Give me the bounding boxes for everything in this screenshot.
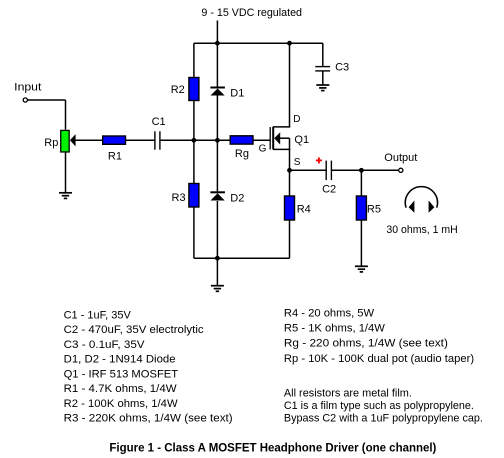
svg-text:R5 - 1K ohms, 1/4W: R5 - 1K ohms, 1/4W	[284, 323, 386, 335]
svg-text:R4: R4	[297, 204, 311, 216]
svg-text:Q1 - IRF 513 MOSFET: Q1 - IRF 513 MOSFET	[64, 368, 179, 380]
svg-text:R3 - 220K ohms, 1/4W (see t: R3 - 220K ohms, 1/4W (see text)	[64, 413, 233, 425]
svg-text:R2 - 100K ohms, 1/4W: R2 - 100K ohms, 1/4W	[64, 398, 179, 410]
svg-text:R3: R3	[172, 192, 186, 204]
svg-text:Input: Input	[14, 82, 41, 94]
svg-text:C1 - 1uF, 35V: C1 - 1uF, 35V	[64, 310, 132, 322]
svg-text:R1: R1	[108, 151, 122, 163]
svg-text:Figure 1 - Class A MOSFET Head: Figure 1 - Class A MOSFET Headphone Driv…	[109, 441, 436, 455]
svg-text:Rg: Rg	[235, 148, 249, 160]
svg-text:C3: C3	[335, 61, 349, 73]
svg-text:C1 is a film type such as poly: C1 is a film type such as polypropylene.	[284, 400, 474, 412]
svg-text:C1: C1	[152, 116, 166, 128]
svg-text:D1, D2 - 1N914 Diode: D1, D2 - 1N914 Diode	[64, 354, 176, 366]
svg-text:D: D	[293, 114, 300, 125]
svg-text:G: G	[259, 144, 267, 155]
svg-text:S: S	[294, 157, 301, 168]
svg-text:Bypass C2 with a 1uF polypropy: Bypass C2 with a 1uF polypropylene cap.	[284, 413, 483, 425]
svg-text:R5: R5	[367, 204, 381, 216]
svg-text:R4 - 20 ohms, 5W: R4 - 20 ohms, 5W	[284, 307, 375, 319]
svg-text:C2 - 470uF, 35V electrolyti: C2 - 470uF, 35V electrolytic	[64, 324, 205, 336]
svg-text:D1: D1	[230, 87, 244, 99]
svg-text:D2: D2	[230, 192, 244, 204]
svg-text:R2: R2	[171, 84, 185, 96]
svg-text:C3 - 0.1uF, 35V: C3 - 0.1uF, 35V	[64, 339, 146, 351]
svg-text:Output: Output	[384, 152, 417, 164]
svg-text:C2: C2	[322, 184, 336, 196]
svg-text:Rp - 10K - 100K dual pot (au: Rp - 10K - 100K dual pot (audio taper)	[284, 353, 474, 365]
svg-text:All resistors are metal film.: All resistors are metal film.	[284, 387, 412, 399]
svg-text:30 ohms, 1 mH: 30 ohms, 1 mH	[386, 224, 457, 236]
svg-text:Rp: Rp	[44, 137, 58, 149]
svg-text:Q1: Q1	[294, 134, 309, 146]
svg-text:R1 - 4.7K ohms, 1/4W: R1 - 4.7K ohms, 1/4W	[64, 383, 178, 395]
svg-text:Rg - 220 ohms, 1/4W (see te: Rg - 220 ohms, 1/4W (see text)	[284, 338, 448, 350]
svg-text:9 - 15 VDC regulated: 9 - 15 VDC regulated	[201, 7, 302, 19]
